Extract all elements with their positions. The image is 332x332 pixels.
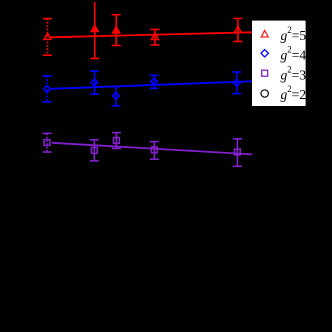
legend marker: open circle g^2=2 bbox=[261, 90, 268, 97]
purple point 5 marker (open square) bbox=[235, 149, 241, 155]
svg-text:g2=4: g2=4 bbox=[281, 45, 307, 63]
purple point 1 error bar (dashed) bbox=[43, 133, 52, 152]
legend label g^2=3 bbox=[281, 64, 307, 82]
legend marker: open triangle g^2=5 bbox=[261, 30, 268, 37]
red point 4 marker (open triangle) bbox=[151, 33, 158, 39]
red point 3 marker (open triangle) bbox=[113, 27, 120, 33]
blue point 4 error bar bbox=[150, 75, 159, 88]
blue point 5 marker (open diamond) bbox=[233, 80, 240, 87]
red point 1 error bar (dashed) bbox=[43, 19, 52, 56]
blue point 5 error bar bbox=[232, 72, 241, 94]
red fit line bbox=[50, 32, 252, 37]
blue point 1 error bar (dashed) bbox=[43, 76, 52, 102]
purple point 2 error bar bbox=[90, 140, 99, 161]
purple point 3 marker (open square) bbox=[114, 138, 120, 144]
legend marker: open square g^2=3 bbox=[262, 70, 268, 76]
svg-text:g2=2: g2=2 bbox=[281, 84, 307, 102]
blue point 3 error bar bbox=[111, 87, 120, 106]
svg-text:g2=5: g2=5 bbox=[281, 25, 307, 43]
red point 5 error bar bbox=[233, 18, 242, 41]
red point 5 marker (open triangle) bbox=[234, 26, 241, 32]
blue point 1 marker (open diamond) bbox=[44, 86, 51, 93]
red point 3 error bar bbox=[112, 15, 121, 46]
purple point 5 error bar bbox=[233, 139, 242, 167]
red point 2 error bar bbox=[90, 2, 99, 59]
red point 2 marker (open triangle) bbox=[91, 25, 98, 31]
svg-text:g2=3: g2=3 bbox=[281, 64, 307, 82]
purple point 1 marker (open square) bbox=[44, 140, 50, 146]
legend label g^2=2 bbox=[281, 84, 307, 102]
blue point 2 marker (open diamond) bbox=[91, 79, 98, 86]
purple point 4 marker (open square) bbox=[151, 147, 157, 153]
red point 4 error bar bbox=[150, 29, 159, 45]
legend label g^2=5 bbox=[281, 25, 307, 43]
legend box bbox=[252, 21, 306, 106]
blue point 3 marker (open diamond) bbox=[113, 92, 120, 99]
legend label g^2=4 bbox=[281, 45, 307, 63]
purple point 4 error bar bbox=[150, 142, 159, 160]
blue point 2 error bar bbox=[90, 71, 99, 94]
purple point 2 marker (open square) bbox=[91, 148, 97, 154]
blue point 4 marker (open diamond) bbox=[151, 78, 158, 85]
legend marker: open diamond g^2=4 bbox=[261, 50, 268, 57]
red point 1 marker (open triangle) bbox=[44, 33, 51, 39]
purple fit line bbox=[52, 143, 252, 155]
purple point 3 error bar bbox=[112, 133, 121, 149]
blue fit line bbox=[51, 81, 253, 89]
